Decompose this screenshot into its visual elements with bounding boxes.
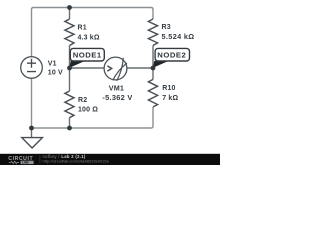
svg-text:10 V: 10 V (48, 69, 63, 76)
wire voltmeter to node2 (127, 67, 153, 69)
svg-text:5.524 kΩ: 5.524 kΩ (162, 32, 195, 41)
wire top horizontal + left vertical upper (32, 8, 154, 57)
voltmeter VM1 (104, 57, 127, 80)
resistor R10 (148, 79, 157, 107)
svg-text:R3: R3 (162, 24, 171, 31)
wire R2 top lead (69, 68, 71, 91)
resistor R2 (65, 91, 74, 118)
svg-text:V1: V1 (48, 61, 57, 68)
wire R2 bottom lead (69, 118, 71, 128)
svg-text:R1: R1 (78, 25, 87, 32)
node NODE1 flag (69, 61, 84, 68)
wire R3 bottom lead to node2 (152, 46, 154, 69)
svg-text:NODE2: NODE2 (157, 50, 186, 59)
svg-text:LAB: LAB (22, 161, 29, 165)
svg-text:http://circuitlab.com/c9a48223: http://circuitlab.com/c9a48223e9222e (43, 159, 110, 164)
wire left vertical lower (31, 79, 33, 129)
svg-text:4.3 kΩ: 4.3 kΩ (78, 35, 100, 42)
svg-text:R2: R2 (78, 97, 87, 104)
svg-text:-5.362 V: -5.362 V (102, 93, 132, 102)
footer logo zigzag (9, 161, 19, 163)
svg-text:7 kΩ: 7 kΩ (162, 95, 178, 102)
footer bar (0, 154, 220, 165)
wire R1 top lead (69, 8, 71, 20)
junction node2 (151, 66, 156, 71)
footer logo LAB (21, 161, 34, 164)
junction node1 (67, 66, 72, 71)
wire R1 bottom lead to node1 (69, 46, 71, 69)
wire bottom horizontal (32, 107, 154, 128)
svg-text:NODE1: NODE1 (73, 50, 102, 59)
footer separator (39, 155, 42, 163)
svg-text:100 Ω: 100 Ω (78, 106, 98, 113)
resistor R3 (148, 19, 157, 46)
junction R2 bottom (67, 126, 72, 131)
resistor R1 (65, 19, 74, 46)
node NODE2 flag (153, 61, 168, 68)
wire ground stub (31, 128, 33, 137)
junction ground (29, 126, 34, 131)
wire R10 top lead (152, 68, 154, 79)
svg-text:R10: R10 (162, 85, 175, 92)
ground (22, 138, 43, 148)
voltage source V1 (21, 57, 43, 79)
wire node1 to voltmeter (70, 67, 105, 69)
junction top (R1/top wire) (67, 5, 72, 10)
svg-text:VM1: VM1 (109, 84, 124, 93)
